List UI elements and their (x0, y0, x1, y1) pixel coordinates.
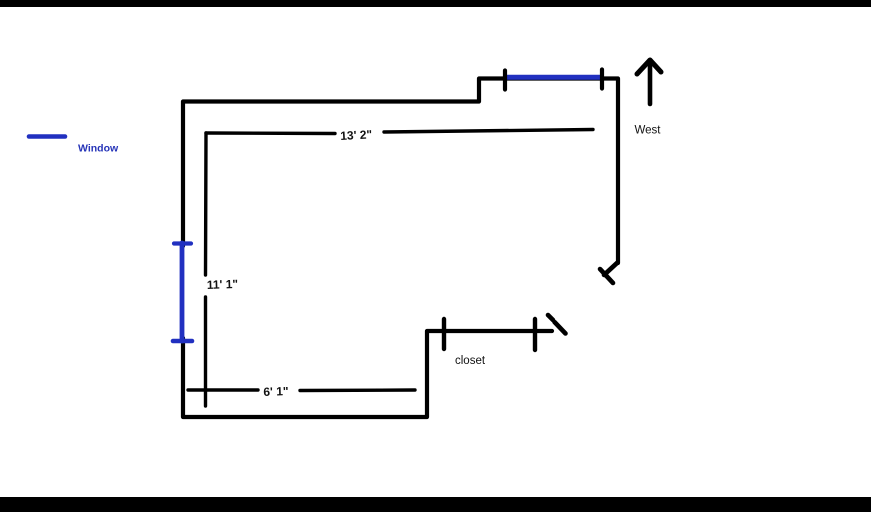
door end cap at right wall door (600, 269, 613, 283)
top letterbox bar (0, 0, 871, 7)
legend window swatch (29, 134, 65, 139)
top window right tick (600, 70, 604, 89)
svg-text:13' 2": 13' 2" (340, 127, 373, 143)
horizontal dimension line 13' 2" (left segment) (206, 131, 335, 135)
north arrow shaft (648, 62, 653, 104)
window on left wall (blue) (180, 243, 185, 341)
left window top tick (174, 241, 191, 245)
north arrow head (637, 60, 661, 74)
horizontal dimension line 13' 2" (right segment) (384, 130, 593, 133)
top window left tick (503, 71, 507, 90)
window on top wall (blue) (506, 75, 601, 80)
svg-text:West: West (635, 125, 662, 137)
door leaf at right wall end (604, 263, 617, 275)
wall: upper outline (left wall top, top wall, step, upper top wall, right wall) (183, 79, 618, 264)
closet door cap (548, 315, 553, 320)
left window bottom tick (173, 339, 192, 344)
wall: lower outline (left wall bottom, bottom wall, closet riser, closet wall) (183, 331, 552, 417)
svg-text:closet: closet (455, 355, 486, 367)
horizontal dimension line 6' 1" (right segment) (300, 388, 415, 392)
vertical dimension line 11' 1" (lower segment) (204, 297, 207, 406)
closet door leaf (555, 322, 566, 334)
bottom letterbox bar (0, 497, 871, 512)
closet tick left (442, 319, 446, 349)
svg-text:Window: Window (78, 143, 119, 155)
svg-text:6' 1": 6' 1" (263, 384, 289, 399)
horizontal dimension line 6' 1" (left segment) (188, 388, 258, 391)
vertical dimension line 11' 1" (upper segment) (204, 133, 208, 275)
closet tick right (533, 319, 537, 350)
svg-text:11' 1": 11' 1" (207, 277, 239, 292)
